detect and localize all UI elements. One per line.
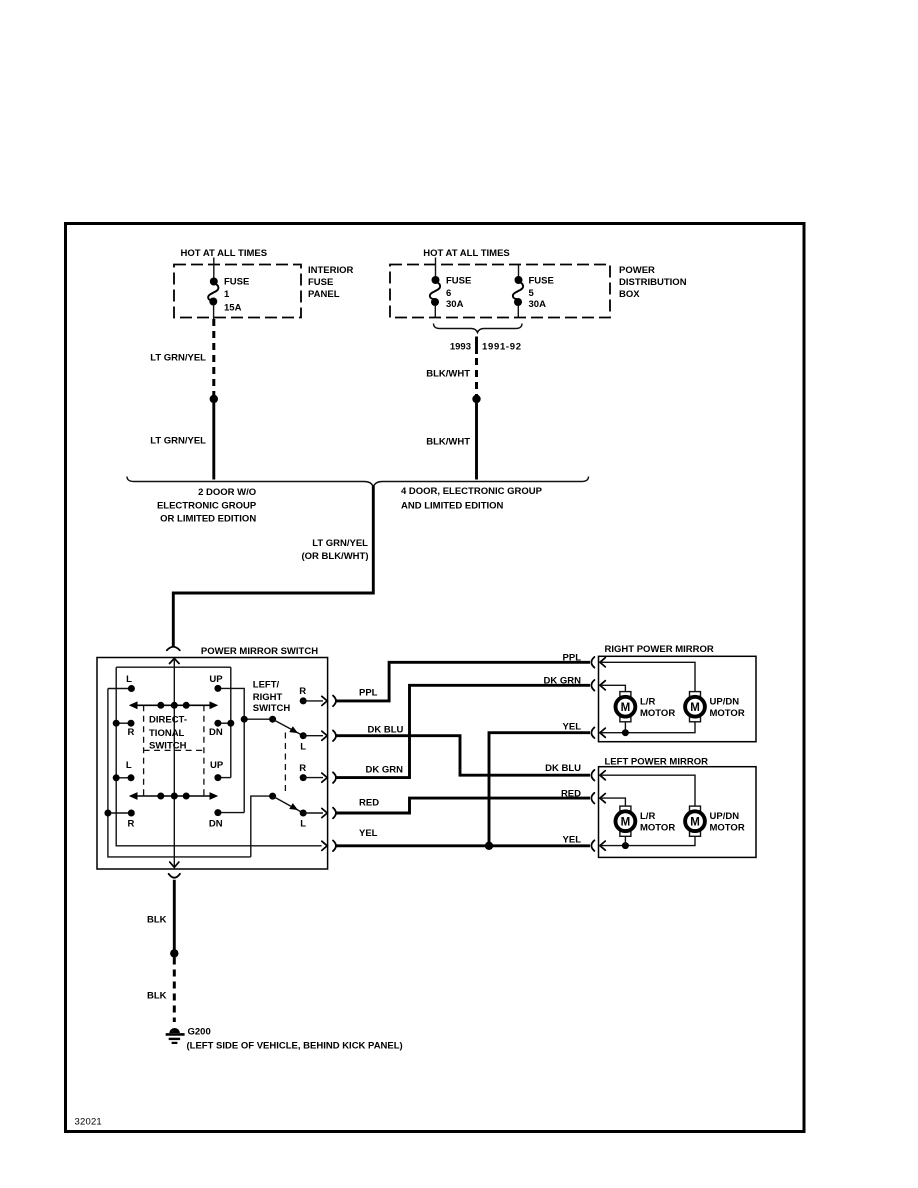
svg-text:30A: 30A <box>446 299 464 310</box>
svg-text:M: M <box>621 816 631 828</box>
svg-text:LEFT POWER MIRROR: LEFT POWER MIRROR <box>605 756 709 767</box>
wire RED inside <box>600 798 626 806</box>
svg-text:R: R <box>127 819 134 830</box>
wire YEL <box>337 844 591 847</box>
svg-text:(OR BLK/WHT): (OR BLK/WHT) <box>301 551 368 562</box>
svg-text:MOTOR: MOTOR <box>710 708 745 719</box>
svg-text:BOX: BOX <box>619 289 640 300</box>
svg-text:DK GRN: DK GRN <box>544 675 582 686</box>
wire BLK/WHT dashed <box>475 358 478 395</box>
splice dot <box>472 395 480 403</box>
svg-text:BLK: BLK <box>147 915 167 926</box>
wire LT GRN/YEL dashed <box>212 319 215 395</box>
wire RED <box>337 798 591 813</box>
svg-text:R: R <box>299 686 306 697</box>
wire fuse6 to box bottom <box>434 305 436 318</box>
wire DK GRN inside <box>600 685 626 692</box>
toggle 1 feed <box>244 718 272 720</box>
connector female at switch entry <box>167 647 180 651</box>
svg-text:30A: 30A <box>529 299 547 310</box>
wire YEL branch to right mirror <box>489 733 590 846</box>
motor M4 UP/DN (left mirror) <box>690 806 701 811</box>
svg-text:INTERIOR: INTERIOR <box>308 265 354 276</box>
svg-text:POWER: POWER <box>619 265 655 276</box>
svg-text:UP: UP <box>209 674 223 685</box>
svg-text:RED: RED <box>561 789 581 800</box>
svg-text:SWITCH: SWITCH <box>253 703 291 714</box>
svg-text:UP: UP <box>210 760 224 771</box>
svg-text:6: 6 <box>446 288 451 299</box>
svg-text:R: R <box>127 727 134 738</box>
wiper row 1 <box>134 704 213 706</box>
svg-text:RIGHT POWER MIRROR: RIGHT POWER MIRROR <box>605 644 714 655</box>
wire fuse5 to box bottom <box>517 305 519 318</box>
mechanical linkage <box>284 733 286 794</box>
svg-text:MOTOR: MOTOR <box>640 822 675 833</box>
wire left bus A <box>108 689 251 857</box>
svg-text:FUSE: FUSE <box>529 276 554 287</box>
svg-text:M: M <box>690 702 700 714</box>
motor M2 UP/DN (right mirror) <box>690 692 701 697</box>
svg-text:1991-92: 1991-92 <box>482 342 522 353</box>
svg-text:PANEL: PANEL <box>308 289 340 300</box>
fuse F1 <box>210 278 218 286</box>
wire into fuse 1 <box>213 258 215 280</box>
svg-text:R: R <box>299 763 306 774</box>
svg-text:HOT AT ALL TIMES: HOT AT ALL TIMES <box>423 248 510 259</box>
splice dot <box>170 949 178 957</box>
wire PPL inside <box>600 662 695 692</box>
svg-text:SWITCH: SWITCH <box>149 741 187 752</box>
svg-text:L: L <box>126 760 132 771</box>
wire DK BLU <box>337 736 591 776</box>
svg-text:M: M <box>690 816 700 828</box>
svg-text:FUSE: FUSE <box>308 277 333 288</box>
wire right bus C <box>230 667 232 777</box>
big option bracket <box>127 477 589 488</box>
wire BLK dashed <box>173 958 176 1023</box>
power distribution box <box>390 265 610 318</box>
svg-text:DK BLU: DK BLU <box>545 763 581 774</box>
wire PPL <box>337 662 591 701</box>
wire left bus B to YEL <box>116 667 321 846</box>
wire fuse1 to box bottom <box>213 305 215 320</box>
svg-text:PPL: PPL <box>359 688 378 699</box>
svg-text:TIONAL: TIONAL <box>149 728 185 739</box>
svg-text:2 DOOR W/O: 2 DOOR W/O <box>198 487 256 498</box>
svg-text:ELECTRONIC GROUP: ELECTRONIC GROUP <box>157 500 257 511</box>
exit arrows and arcs <box>322 696 327 705</box>
splice dot <box>210 395 218 403</box>
svg-text:PPL: PPL <box>563 652 582 663</box>
wire BLK/WHT solid <box>475 403 478 480</box>
wire DK GRN <box>337 685 591 777</box>
power mirror switch box U1 <box>97 658 328 870</box>
wire into fuse 5 <box>518 265 520 277</box>
interior fuse panel box <box>174 265 301 318</box>
svg-text:AND LIMITED EDITION: AND LIMITED EDITION <box>401 501 504 512</box>
svg-text:L/R: L/R <box>640 811 655 822</box>
mirror entry connectors (arc + arrow) x6 <box>591 657 594 668</box>
wire BLK solid <box>173 880 176 950</box>
svg-text:LT GRN/YEL: LT GRN/YEL <box>150 436 206 447</box>
svg-text:DK GRN: DK GRN <box>366 765 404 776</box>
wire center feed <box>173 658 175 866</box>
svg-text:DIRECT-: DIRECT- <box>149 715 187 726</box>
svg-text:DN: DN <box>209 819 223 830</box>
svg-text:YEL: YEL <box>563 834 582 845</box>
svg-text:POWER MIRROR SWITCH: POWER MIRROR SWITCH <box>201 646 318 657</box>
svg-text:L/R: L/R <box>640 697 655 708</box>
svg-text:BLK: BLK <box>147 990 167 1001</box>
wire right bus D <box>218 688 244 812</box>
motor M3 L/R (left mirror) <box>620 806 631 811</box>
svg-text:FUSE: FUSE <box>224 277 249 288</box>
toggle 2 arm <box>269 793 276 800</box>
svg-text:RED: RED <box>359 797 379 808</box>
svg-text:(LEFT SIDE OF VEHICLE, BEHIND: (LEFT SIDE OF VEHICLE, BEHIND KICK PANEL… <box>187 1041 403 1052</box>
svg-text:FUSE: FUSE <box>446 276 471 287</box>
svg-text:LEFT/: LEFT/ <box>253 680 280 691</box>
fuse F5 <box>515 276 523 284</box>
right power mirror box <box>599 656 757 741</box>
toggle 1 arm <box>269 716 276 723</box>
connector male arrow into switch <box>170 658 180 663</box>
svg-text:L: L <box>126 674 132 685</box>
svg-text:L: L <box>300 741 306 752</box>
ground G200 <box>169 1028 180 1033</box>
svg-text:DK BLU: DK BLU <box>368 724 404 735</box>
svg-text:32021: 32021 <box>75 1116 102 1127</box>
wire into fuse 6 <box>435 258 437 279</box>
wire inner box top edge <box>116 666 231 668</box>
svg-text:4 DOOR, ELECTRONIC GROUP: 4 DOOR, ELECTRONIC GROUP <box>401 486 543 497</box>
splice YEL <box>485 842 493 850</box>
svg-text:UP/DN: UP/DN <box>710 811 740 822</box>
svg-text:OR LIMITED EDITION: OR LIMITED EDITION <box>160 513 256 524</box>
svg-text:MOTOR: MOTOR <box>710 822 745 833</box>
wire LT GRN/YEL solid <box>212 403 215 480</box>
wire from bracket to switch <box>173 486 373 647</box>
svg-text:RIGHT: RIGHT <box>253 692 283 703</box>
wire DK BLU inside <box>600 775 695 806</box>
left power mirror box <box>599 767 757 858</box>
motor M1 L/R (right mirror) <box>620 692 631 697</box>
wiper row 2 <box>134 795 213 797</box>
svg-text:L: L <box>300 819 306 830</box>
svg-text:15A: 15A <box>224 303 242 314</box>
connector female below switch <box>169 874 180 878</box>
svg-text:MOTOR: MOTOR <box>640 708 675 719</box>
switch exit connector arrow (bottom) <box>170 862 179 867</box>
svg-text:HOT AT ALL TIMES: HOT AT ALL TIMES <box>181 248 268 259</box>
wire YEL inside <box>600 722 695 733</box>
svg-text:BLK/WHT: BLK/WHT <box>426 369 470 380</box>
svg-text:LT GRN/YEL: LT GRN/YEL <box>312 538 368 549</box>
bracket under fuses <box>434 324 523 333</box>
svg-text:G200: G200 <box>188 1027 211 1038</box>
wire BLK/WHT stub <box>475 337 478 355</box>
svg-text:BLK/WHT: BLK/WHT <box>426 437 470 448</box>
svg-text:1: 1 <box>224 289 230 300</box>
svg-text:5: 5 <box>529 288 535 299</box>
directional switch dashed box <box>143 705 145 796</box>
svg-text:M: M <box>621 702 631 714</box>
svg-text:DN: DN <box>209 727 223 738</box>
wire YEL inside <box>600 836 695 845</box>
svg-text:1993: 1993 <box>450 342 471 353</box>
wire lower toggle feed E <box>251 796 273 857</box>
svg-text:LT GRN/YEL: LT GRN/YEL <box>150 353 206 364</box>
svg-text:DISTRIBUTION: DISTRIBUTION <box>619 277 687 288</box>
svg-text:YEL: YEL <box>359 828 378 839</box>
svg-text:UP/DN: UP/DN <box>710 697 740 708</box>
fuse F6 <box>432 276 440 284</box>
border frame <box>66 224 805 1132</box>
svg-text:YEL: YEL <box>563 721 582 732</box>
